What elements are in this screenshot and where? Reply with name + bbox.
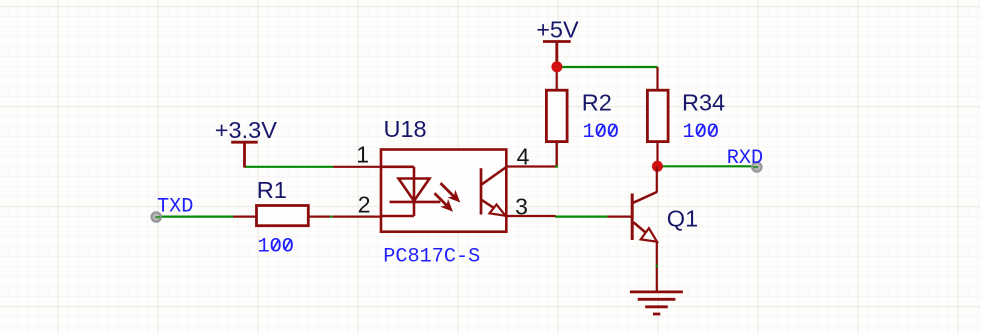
svg-text:+5V: +5V (536, 17, 579, 43)
wire pin3 to Q1 base (green) (555, 216, 608, 218)
svg-text:Q1: Q1 (667, 205, 698, 231)
wire +5V rail to R34 (green) (557, 66, 658, 68)
resistor R34 (647, 67, 668, 166)
svg-text:+3.3V: +3.3V (215, 117, 277, 143)
wire stub at R1-U18 (green dot) (330, 216, 333, 218)
node TXD terminal (152, 212, 161, 221)
power +3.3V symbol (231, 142, 258, 167)
wire U18 pin1 stub (red) (333, 166, 382, 168)
wire Q1 base stub (red) (608, 216, 633, 218)
junction dot at RXD node (652, 161, 663, 172)
svg-text:4: 4 (517, 143, 530, 169)
wire RXD net (green) (658, 165, 752, 167)
svg-text:1OO: 1OO (583, 121, 619, 144)
svg-text:1OO: 1OO (683, 121, 719, 144)
transistor Q1 (632, 166, 657, 291)
U18 internal LED (382, 167, 440, 216)
wire stub at pin4 corner (green dot) (555, 165, 558, 167)
wire U18 pin3 stub (red) (506, 215, 556, 217)
svg-text:PC817C-S: PC817C-S (383, 245, 480, 268)
U18 light arrow upper (441, 183, 461, 202)
wire U18 pin4 stub (red) (506, 142, 557, 167)
wire stub at Q1 emitter-ground (green dot) (656, 265, 658, 268)
power +5V symbol (543, 42, 571, 63)
ground (630, 292, 683, 314)
resistor R1 (233, 206, 330, 226)
U18 light arrow lower (435, 193, 454, 212)
optocoupler U18 body (381, 150, 506, 232)
svg-text:R34: R34 (682, 90, 725, 116)
svg-text:TXD: TXD (157, 196, 193, 219)
svg-text:3: 3 (515, 193, 528, 219)
svg-text:U18: U18 (384, 116, 427, 142)
wire TXD net (green) (161, 216, 233, 218)
svg-text:2: 2 (358, 192, 371, 218)
svg-text:1: 1 (356, 142, 369, 168)
svg-text:R1: R1 (257, 177, 287, 203)
svg-text:RXD: RXD (727, 147, 763, 170)
resistor R2 (546, 67, 567, 168)
node RXD terminal (752, 162, 761, 171)
svg-text:R2: R2 (582, 90, 612, 116)
U18 phototransistor (481, 167, 506, 216)
svg-text:1OO: 1OO (258, 236, 294, 259)
junction dot at +5V rail (551, 61, 562, 72)
wire U18 pin2 stub (red) (333, 216, 382, 218)
wire +3.3V to pin1 (green) (245, 166, 334, 168)
